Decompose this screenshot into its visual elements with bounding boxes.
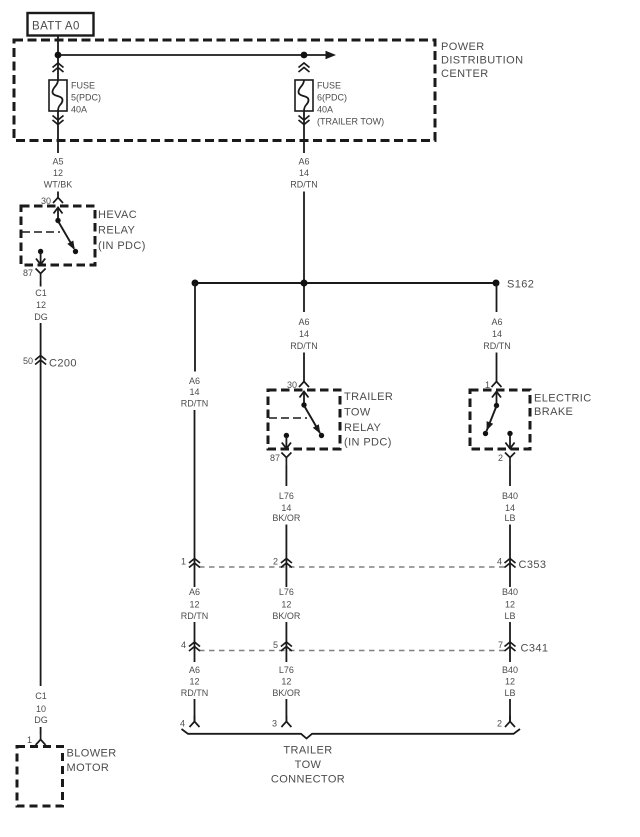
wire C353 to C341 left [194, 622, 196, 662]
trailer tow connector brace [182, 729, 521, 739]
HEVAC coil dashed line [22, 231, 60, 233]
wire label A6 12 RD/TN (bottom left) [181, 665, 209, 698]
svg-text:12: 12 [281, 600, 291, 610]
wire into blower motor [40, 727, 42, 734]
wire C341 to trailer tow connector middle [285, 699, 287, 722]
label FUSE 5(PDC) 40A [71, 81, 101, 115]
wire to connector C200 [40, 323, 42, 365]
C353 pin 1 chevrons [189, 559, 200, 568]
svg-text:(TRAILER TOW): (TRAILER TOW) [317, 117, 384, 127]
electric brake pin 2 contact dot [507, 431, 512, 436]
svg-text:S162: S162 [507, 279, 534, 291]
svg-text:C1: C1 [35, 691, 47, 701]
junction dot at fuse 6 feed [301, 52, 308, 59]
connector chevrons above fuse 6 [299, 63, 310, 72]
svg-text:12: 12 [53, 168, 63, 178]
svg-text:L76: L76 [279, 587, 294, 597]
trailer relay pin 30 arrow into box [300, 392, 309, 405]
svg-text:L76: L76 [279, 665, 294, 675]
svg-text:L76: L76 [279, 491, 294, 501]
svg-text:FUSE: FUSE [317, 81, 341, 91]
HEVAC pin 87 contact dot [38, 249, 43, 254]
svg-text:12: 12 [281, 677, 291, 687]
C353 pin 2 chevrons [281, 559, 292, 568]
HEVAC switch pivot dot [55, 218, 60, 223]
trailer tow connector pin 2 [505, 716, 515, 728]
wire label C1 10 DG [34, 691, 48, 725]
splice dot left [192, 280, 199, 287]
HEVAC blade end dot [73, 249, 78, 254]
svg-text:TOW: TOW [295, 759, 322, 771]
wire label A6 14 RD/TN (middle branch) [290, 317, 318, 351]
trailer relay switch blade with arrowhead [304, 406, 320, 434]
wire to trailer tow relay [303, 353, 305, 383]
svg-text:C353: C353 [519, 559, 547, 571]
svg-text:FUSE: FUSE [71, 81, 95, 91]
svg-text:3: 3 [272, 719, 277, 729]
svg-text:DG: DG [34, 715, 48, 725]
wire label L76 14 BK/OR [272, 491, 301, 523]
label TRAILER TOW CONNECTOR [271, 745, 345, 786]
wire fuse 5 to HEVAC relay [57, 111, 59, 153]
svg-text:12: 12 [505, 677, 515, 687]
svg-text:LB: LB [504, 611, 515, 621]
wire label A6 14 RD/TN (left branch) [181, 376, 209, 409]
wire to C353 [285, 525, 287, 588]
svg-text:40A: 40A [71, 105, 87, 115]
svg-text:87: 87 [23, 268, 33, 278]
svg-text:CONNECTOR: CONNECTOR [271, 774, 345, 786]
svg-text:A6: A6 [189, 587, 200, 597]
svg-text:BLOWER: BLOWER [67, 748, 117, 760]
svg-text:C200: C200 [49, 358, 77, 370]
svg-text:14: 14 [189, 387, 199, 397]
svg-text:RD/TN: RD/TN [483, 341, 511, 351]
wire label L76 12 BK/OR (bottom middle) [272, 665, 301, 698]
electric brake pin 2 connector Y [505, 453, 515, 466]
C341 pin 5 chevrons [281, 642, 292, 651]
connector C200 chevrons [35, 356, 46, 365]
node BATT A0 [28, 13, 94, 36]
svg-text:RD/TN: RD/TN [290, 341, 318, 351]
svg-text:BATT A0: BATT A0 [32, 21, 80, 33]
svg-text:1: 1 [181, 557, 186, 567]
electric brake pin 1 arrow into box [492, 392, 501, 405]
svg-text:14: 14 [281, 503, 291, 513]
svg-text:TRAILER: TRAILER [344, 391, 393, 403]
svg-text:12: 12 [36, 300, 46, 310]
wire C200 to blower motor [40, 365, 42, 687]
wire label A6 12 RD/TN (below C353 left) [181, 587, 209, 621]
connector C341 dashed line [199, 650, 505, 652]
label BLOWER MOTOR [67, 748, 117, 775]
svg-text:10: 10 [36, 704, 46, 714]
wire label A5 12 WT/BK [44, 157, 73, 190]
trailer relay blade end dot [319, 433, 324, 438]
svg-text:50: 50 [23, 356, 33, 366]
svg-text:87: 87 [270, 453, 280, 463]
wire below HEVAC 87 [40, 282, 42, 287]
svg-text:(IN PDC): (IN PDC) [98, 240, 146, 252]
svg-text:A6: A6 [189, 376, 200, 386]
label POWER DISTRIBUTION CENTER [441, 41, 523, 80]
splice dot middle [301, 280, 308, 287]
blower motor pin 1 connector [36, 734, 46, 746]
wire right branch to electric brake [496, 283, 498, 312]
svg-text:5(PDC): 5(PDC) [71, 93, 101, 103]
svg-text:C1: C1 [35, 288, 47, 298]
splice dot right S162 [493, 280, 500, 287]
svg-text:2: 2 [273, 557, 278, 567]
svg-text:A6: A6 [491, 317, 502, 327]
svg-text:POWER: POWER [441, 41, 485, 53]
svg-text:1: 1 [27, 735, 32, 745]
label ELECTRIC BRAKE [534, 393, 592, 419]
wire label A6 14 RD/TN (below PDC) [290, 157, 318, 190]
wire into HEVAC relay pin 30 [57, 192, 59, 199]
svg-text:B40: B40 [502, 587, 518, 597]
HEVAC pin 30 arrow into box [54, 208, 63, 221]
svg-text:A6: A6 [298, 317, 309, 327]
trailer relay pin 87 connector Y [281, 453, 291, 466]
svg-text:B40: B40 [502, 665, 518, 675]
electric brake blade end dot [483, 431, 488, 436]
wire right branch lower [496, 353, 498, 383]
HEVAC switch blade with arrowhead [58, 221, 75, 250]
wire below electric brake [509, 466, 511, 487]
label TRAILER TOW RELAY (IN PDC) [344, 391, 393, 449]
svg-text:HEVAC: HEVAC [98, 209, 137, 221]
wire label A6 14 RD/TN (right branch) [483, 317, 511, 351]
connector chevrons above fuse 5 [53, 63, 64, 72]
wire label L76 12 BK/OR (below C353 middle) [272, 587, 301, 621]
svg-text:7: 7 [498, 640, 503, 650]
power distribution center dashed box [14, 40, 435, 141]
pin 87 connector Y [36, 269, 46, 282]
svg-text:4: 4 [180, 719, 185, 729]
relay TRAILER TOW dashed box [268, 390, 340, 449]
wire left branch to C353 [194, 410, 196, 587]
label FUSE 6(PDC) 40A (TRAILER TOW) [317, 81, 384, 127]
connector chevrons below fuse 6 [299, 116, 310, 125]
electric brake dashed box [470, 390, 530, 449]
wire down to splice S162 [303, 192, 305, 313]
wire below trailer relay [285, 466, 287, 487]
svg-text:6(PDC): 6(PDC) [317, 93, 347, 103]
svg-text:DISTRIBUTION: DISTRIBUTION [441, 55, 523, 67]
svg-text:40A: 40A [317, 105, 333, 115]
svg-text:RELAY: RELAY [344, 422, 382, 434]
splice bus S162 [195, 282, 496, 284]
svg-text:ELECTRIC: ELECTRIC [534, 393, 592, 405]
svg-text:14: 14 [492, 329, 502, 339]
svg-text:C341: C341 [521, 643, 549, 655]
svg-text:RD/TN: RD/TN [181, 611, 209, 621]
svg-text:RD/TN: RD/TN [290, 180, 318, 190]
svg-text:12: 12 [189, 677, 199, 687]
C341 pin 4 chevrons [189, 642, 200, 651]
svg-text:14: 14 [299, 168, 309, 178]
wire C353 to C341 middle [285, 622, 287, 662]
trailer relay coil dashed line [269, 417, 307, 419]
svg-text:4: 4 [497, 557, 502, 567]
svg-text:12: 12 [505, 600, 515, 610]
wire label B40 12 LB (below C353 right) [502, 587, 518, 621]
svg-text:BRAKE: BRAKE [534, 406, 573, 418]
junction dot at BATT feed [55, 52, 62, 59]
pin 30 connector chevron [53, 198, 63, 204]
svg-text:TRAILER: TRAILER [283, 745, 332, 757]
svg-text:A6: A6 [298, 157, 309, 167]
wire left branch upper [194, 283, 196, 372]
pin 1 connector chevron (electric brake) [492, 382, 502, 388]
wire C353 to C341 right [509, 622, 511, 662]
svg-text:BK/OR: BK/OR [272, 513, 301, 523]
svg-text:B40: B40 [502, 491, 518, 501]
svg-text:A5: A5 [52, 157, 63, 167]
svg-text:A6: A6 [189, 665, 200, 675]
svg-text:4: 4 [181, 640, 186, 650]
wire to C353 right [509, 525, 511, 588]
electric brake pin 2 arrow out of box [505, 434, 514, 449]
electric brake switch blade with arrowhead [487, 406, 497, 431]
svg-text:2: 2 [497, 719, 502, 729]
wire feed bus to fuse 6 with arrow [58, 51, 336, 59]
svg-text:RD/TN: RD/TN [181, 688, 209, 698]
svg-text:DG: DG [34, 312, 48, 322]
electric brake pivot dot [494, 403, 499, 408]
svg-text:RD/TN: RD/TN [181, 399, 209, 409]
connector C353 dashed line [199, 566, 505, 568]
fuse F6 body [295, 80, 313, 111]
svg-text:BK/OR: BK/OR [272, 688, 301, 698]
wire label B40 14 LB [502, 491, 518, 523]
trailer relay pivot dot [301, 402, 306, 407]
trailer relay pin 87 arrow out of box [282, 436, 291, 449]
svg-text:MOTOR: MOTOR [67, 762, 110, 774]
svg-text:(IN PDC): (IN PDC) [344, 437, 392, 449]
wire label B40 12 LB (bottom right) [502, 665, 518, 698]
svg-text:RELAY: RELAY [98, 225, 136, 237]
HEVAC pin 87 arrow out of box [36, 252, 45, 265]
trailer relay pin 87 contact dot [284, 433, 289, 438]
wire label C1 12 DG [34, 288, 48, 322]
svg-text:TOW: TOW [344, 407, 371, 419]
trailer tow connector pin 3 [281, 716, 291, 728]
wire C341 to trailer tow connector left [194, 699, 196, 722]
svg-text:12: 12 [189, 600, 199, 610]
pin 30 connector chevron (trailer tow relay) [299, 382, 309, 388]
blower motor dashed box [17, 747, 63, 807]
svg-text:5: 5 [273, 640, 278, 650]
svg-text:14: 14 [505, 503, 515, 513]
C353 pin 4 chevrons [505, 559, 516, 568]
fuse F5 body [49, 80, 67, 111]
wire fuse 6 to splice [303, 111, 305, 153]
wire C341 to trailer tow connector right [509, 699, 511, 722]
svg-text:BK/OR: BK/OR [272, 611, 301, 621]
svg-text:WT/BK: WT/BK [44, 180, 73, 190]
label HEVAC RELAY (IN PDC) [98, 209, 146, 252]
svg-text:LB: LB [504, 688, 515, 698]
connector chevrons below fuse 5 [53, 116, 64, 125]
relay HEVAC dashed box [21, 206, 95, 265]
svg-text:LB: LB [504, 513, 515, 523]
wire from BATT A0 down to fuse 5 [57, 36, 59, 81]
svg-text:2: 2 [498, 453, 503, 463]
svg-text:14: 14 [299, 329, 309, 339]
trailer tow connector pin 4 [190, 716, 200, 728]
svg-text:CENTER: CENTER [441, 68, 489, 80]
C341 pin 7 chevrons [505, 642, 516, 651]
